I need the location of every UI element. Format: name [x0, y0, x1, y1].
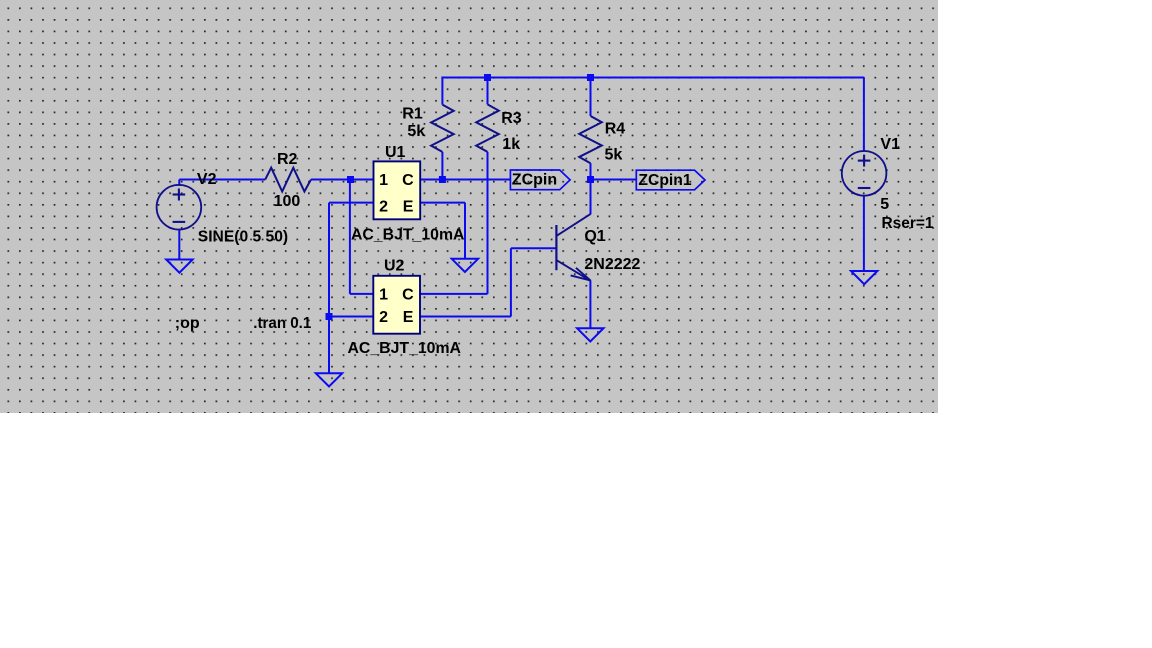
svg-text:AC_BJT_10mA: AC_BJT_10mA: [351, 226, 465, 243]
svg-text:5k: 5k: [407, 123, 425, 140]
svg-text:R3: R3: [501, 110, 522, 127]
svg-text:Rser=1: Rser=1: [882, 215, 934, 232]
svg-text:1: 1: [379, 172, 388, 189]
svg-text:2: 2: [379, 309, 388, 326]
svg-text:U2: U2: [384, 258, 405, 275]
svg-text:C: C: [402, 172, 414, 189]
svg-text:1k: 1k: [502, 136, 520, 153]
svg-text:Q1: Q1: [584, 228, 605, 245]
svg-text:R1: R1: [402, 106, 423, 123]
svg-text:1: 1: [379, 287, 388, 304]
svg-text:2N2222: 2N2222: [584, 256, 640, 273]
svg-text:;op: ;op: [175, 315, 200, 332]
svg-text:SINE(0 5 50): SINE(0 5 50): [198, 229, 288, 246]
svg-text:5k: 5k: [605, 147, 623, 164]
svg-text:E: E: [403, 309, 414, 326]
svg-text:ZCpin: ZCpin: [512, 171, 557, 188]
svg-text:.tran 0.1: .tran 0.1: [253, 315, 311, 332]
svg-text:R4: R4: [605, 121, 626, 138]
svg-text:AC_BJT_10mA: AC_BJT_10mA: [348, 340, 462, 357]
svg-text:5: 5: [880, 196, 889, 213]
svg-text:ZCpin1: ZCpin1: [638, 172, 691, 189]
svg-text:100: 100: [274, 193, 301, 210]
svg-text:E: E: [403, 198, 414, 215]
svg-text:U1: U1: [385, 144, 406, 161]
svg-text:V1: V1: [880, 136, 900, 153]
svg-text:C: C: [402, 287, 414, 304]
svg-text:R2: R2: [277, 151, 298, 168]
svg-text:V2: V2: [197, 171, 217, 188]
svg-text:2: 2: [379, 198, 388, 215]
